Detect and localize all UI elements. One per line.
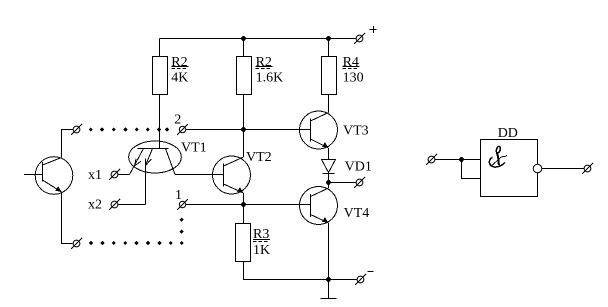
node junction net1 VT2 emitter bbox=[241, 202, 246, 207]
svg-text:VT3: VT3 bbox=[343, 123, 369, 138]
wire bottom node to minus terminal bbox=[329, 279, 358, 281]
node junction top rail at R4 bbox=[326, 36, 331, 41]
wire VT1 collector to VT2 base bbox=[175, 174, 224, 176]
wire VT4 emitter down bbox=[328, 223, 330, 280]
resistor R4 (130) bbox=[322, 57, 337, 95]
gate output bubble bbox=[533, 164, 542, 173]
transistor VT1 multi-emitter bbox=[129, 141, 182, 175]
wire node to mid terminal bbox=[329, 182, 357, 184]
transistor Q input stage bbox=[24, 157, 73, 195]
label ampersand bbox=[489, 146, 506, 167]
terminal 1 bbox=[177, 199, 188, 210]
label R4 130 bbox=[343, 55, 364, 86]
svg-text:1K: 1K bbox=[253, 243, 270, 258]
wire R2a top lead bbox=[159, 39, 161, 58]
wire R2a bottom lead / VT1 base lead bbox=[159, 95, 161, 149]
wire dotted row bottom bbox=[89, 241, 184, 245]
node junction net2 x R2b bbox=[241, 127, 246, 132]
gate DD body bbox=[481, 140, 538, 197]
terminal output mid bbox=[354, 177, 365, 188]
svg-text:x1: x1 bbox=[88, 168, 102, 183]
wire Q collector bbox=[62, 130, 74, 158]
wire VT4 collector to node bbox=[328, 183, 330, 189]
svg-text:4K: 4K bbox=[171, 70, 188, 85]
svg-text:VT4: VT4 bbox=[344, 206, 370, 221]
wire net2 to VT3 base bbox=[186, 129, 311, 131]
node junction output bbox=[326, 180, 331, 185]
wire dotted row top bbox=[89, 127, 170, 131]
wire top rail bbox=[160, 38, 357, 40]
ground bbox=[321, 280, 337, 299]
wire VT1 emitter2 vertical bbox=[145, 166, 147, 205]
node junction top rail at R2b bbox=[241, 36, 246, 41]
svg-text:1.6K: 1.6K bbox=[256, 70, 284, 85]
svg-text:x2: x2 bbox=[88, 197, 102, 212]
wire VT2 emitter to node bbox=[243, 193, 245, 205]
svg-text:2: 2 bbox=[174, 112, 181, 127]
svg-text:R2: R2 bbox=[171, 55, 187, 70]
svg-text:130: 130 bbox=[343, 70, 364, 85]
resistor R2 (4K) bbox=[153, 57, 168, 95]
node junction gate input bbox=[459, 157, 464, 162]
wire gate input 2 bbox=[462, 160, 481, 179]
label R2 1.6K bbox=[256, 55, 284, 86]
svg-text:DD: DD bbox=[498, 126, 518, 141]
wire R2b bottom lead to VT2 collector bbox=[243, 95, 245, 158]
wire gate output bbox=[542, 168, 584, 170]
transistor VT4 bbox=[300, 187, 338, 225]
svg-text:VT2: VT2 bbox=[246, 150, 272, 165]
transistor VT2 bbox=[213, 156, 251, 194]
terminal 2 bbox=[177, 124, 188, 135]
label - sign bbox=[368, 271, 374, 273]
terminal x1 bbox=[109, 169, 120, 180]
terminal x2 bbox=[109, 199, 120, 210]
svg-text:R2: R2 bbox=[256, 55, 272, 70]
resistor R3 (1K) bbox=[236, 224, 251, 262]
label R3 1K bbox=[253, 227, 270, 258]
gate DD input terminal bbox=[426, 154, 437, 165]
wire dotted column right bbox=[180, 217, 184, 233]
terminal bottom-left bbox=[71, 238, 82, 249]
terminal + (supply) bbox=[354, 33, 365, 44]
transistor VT3 bbox=[300, 111, 338, 149]
svg-text:1: 1 bbox=[175, 188, 182, 203]
terminal gate output bbox=[582, 163, 593, 174]
wire VT3 emitter to diode bbox=[328, 148, 330, 160]
wire node to R3 bbox=[243, 205, 245, 224]
terminal - (supply) bbox=[355, 274, 366, 285]
wire gate input 1 bbox=[435, 159, 481, 161]
wire Q emitter bbox=[62, 192, 73, 244]
svg-text:VT1: VT1 bbox=[181, 141, 207, 156]
wire x1 to VT1 emitter1 bbox=[118, 174, 130, 176]
wire VD1 cathode to node bbox=[328, 173, 330, 183]
wire net1 to VT4 base bbox=[186, 204, 311, 206]
wire R2b top lead bbox=[243, 39, 245, 58]
wire R4 bottom lead to VT3 collector bbox=[328, 95, 330, 113]
label R2 4K bbox=[171, 55, 188, 86]
resistor R2 (1.6K) bbox=[237, 57, 252, 95]
wire R4 top lead bbox=[328, 39, 330, 58]
terminal top-left bbox=[71, 124, 82, 135]
label + sign bbox=[370, 26, 377, 33]
svg-text:VD1: VD1 bbox=[345, 159, 372, 174]
wire R3 bottom bbox=[244, 262, 329, 280]
node junction bottom bbox=[326, 277, 331, 282]
diode VD1 bbox=[322, 160, 336, 174]
wire x2 to VT1 emitter2 bbox=[118, 204, 146, 206]
svg-text:R4: R4 bbox=[343, 55, 359, 70]
